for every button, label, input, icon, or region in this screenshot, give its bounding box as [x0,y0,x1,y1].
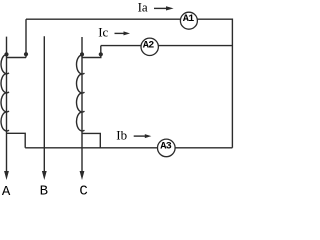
svg-text:Ic: Ic [98,25,108,40]
svg-text:A1: A1 [183,14,194,25]
svg-text:B: B [40,184,48,200]
svg-text:Ib: Ib [116,128,127,143]
svg-text:A2: A2 [143,41,154,52]
svg-text:C: C [79,184,87,200]
svg-text:A3: A3 [160,142,171,153]
svg-text:A: A [2,184,11,200]
svg-text:Ia: Ia [138,0,148,15]
